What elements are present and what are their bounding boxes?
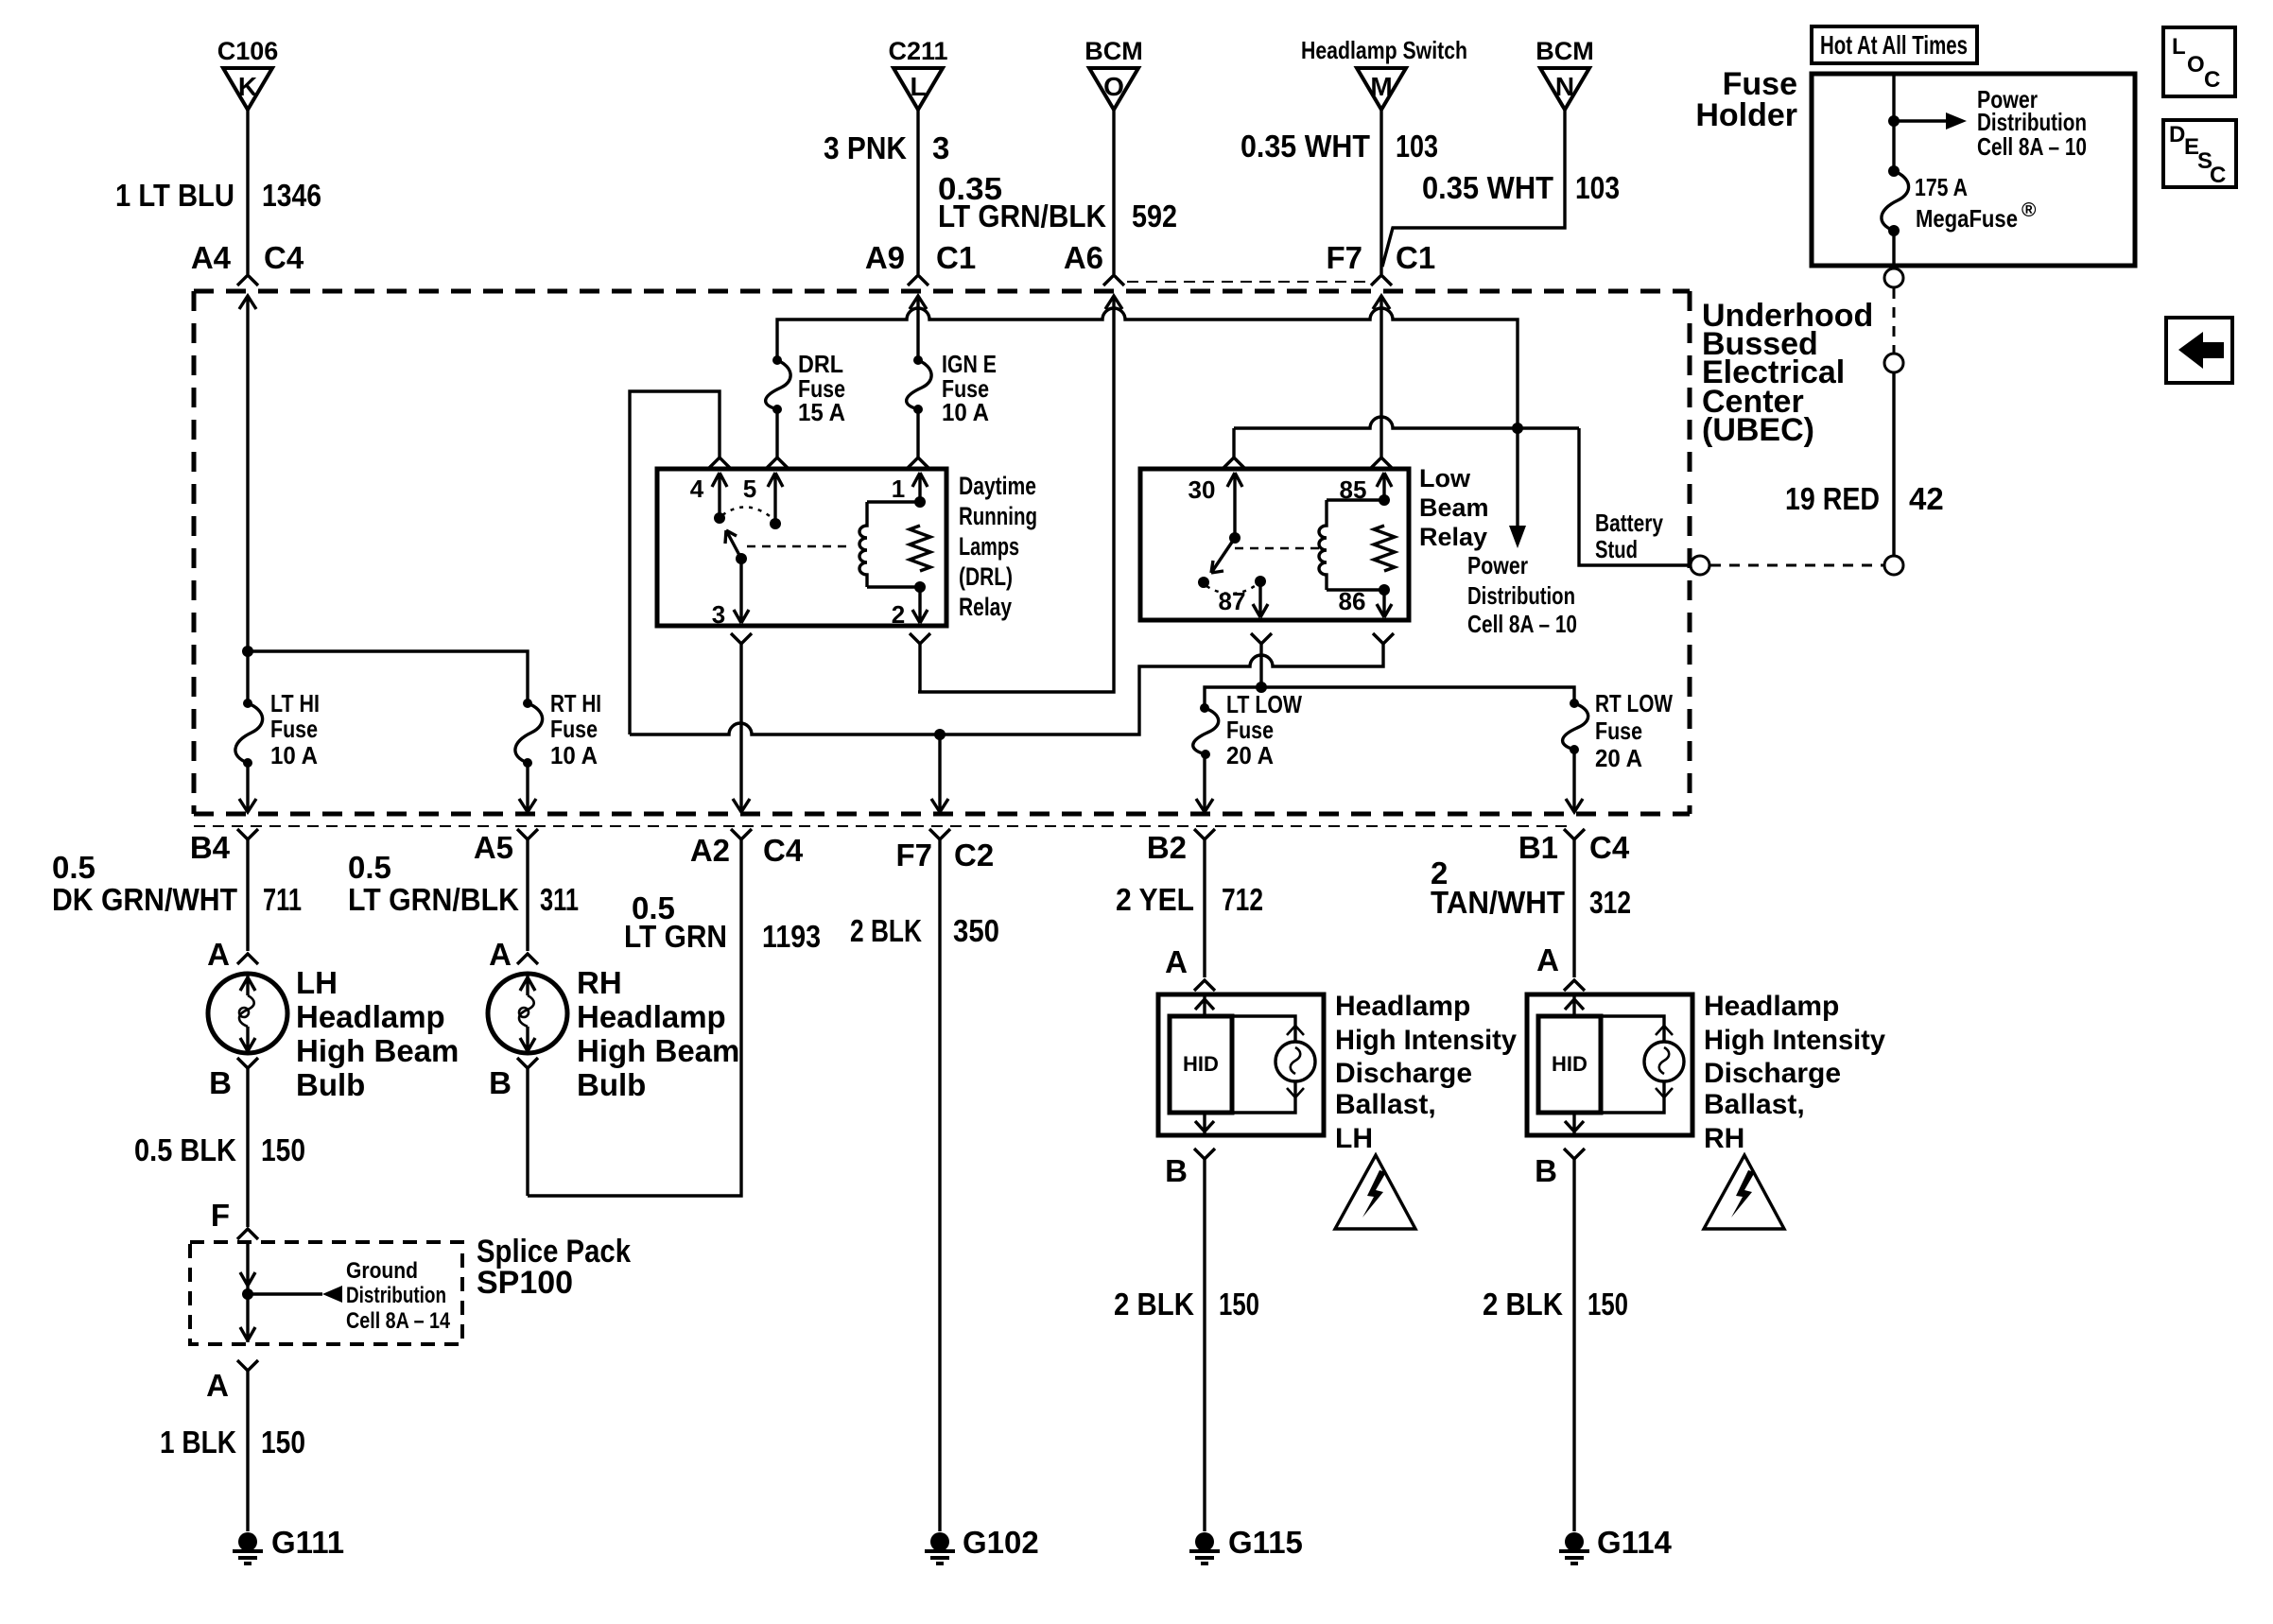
svg-text:350: 350: [953, 913, 999, 948]
DRL relay pin 1: [912, 473, 928, 502]
svg-text:DK GRN/WHT: DK GRN/WHT: [52, 882, 237, 917]
RT LOW Fuse 20 A: [1570, 699, 1579, 708]
svg-text:712: 712: [1222, 882, 1263, 917]
wire B1 to HID RH: [1572, 839, 1575, 977]
svg-text:Fuse: Fuse: [1226, 716, 1274, 744]
svg-text:1346: 1346: [262, 178, 321, 213]
svg-text:Holder: Holder: [1695, 97, 1797, 133]
svg-text:C1: C1: [1396, 240, 1435, 275]
connector chevron above DRL pin 4: [709, 458, 730, 468]
svg-text:Fuse: Fuse: [550, 715, 598, 743]
svg-text:103: 103: [1396, 129, 1438, 164]
wire inside fuse holder: [1892, 74, 1895, 171]
wire from Headlamp Switch M down to border: [1379, 110, 1382, 274]
svg-text:Daytime: Daytime: [959, 472, 1036, 500]
svg-text:5: 5: [743, 475, 756, 503]
wire DRL fuse to relay pin 5: [775, 409, 778, 458]
svg-text:2 BLK: 2 BLK: [1483, 1287, 1563, 1322]
svg-text:Headlamp: Headlamp: [1704, 991, 1839, 1022]
svg-text:Headlamp Switch: Headlamp Switch: [1301, 36, 1467, 64]
svg-text:Discharge: Discharge: [1335, 1058, 1472, 1089]
HID RH input wire and chevron: [1565, 994, 1584, 1016]
wire below A9/C1 connector to IGN E fuse: [916, 296, 919, 360]
power distribution down arrow: [1516, 428, 1518, 526]
svg-text:(DRL): (DRL): [959, 562, 1013, 591]
svg-text:150: 150: [1588, 1287, 1628, 1322]
chevron below border A5: [517, 829, 538, 839]
svg-text:RT HI: RT HI: [550, 689, 601, 717]
svg-text:Hot At All Times: Hot At All Times: [1820, 30, 1968, 60]
svg-text:F7: F7: [1326, 240, 1362, 275]
svg-text:20 A: 20 A: [1595, 744, 1642, 772]
DRL relay resistor: [910, 526, 930, 571]
battery stud wire: [1579, 428, 1690, 565]
svg-text:Distribution: Distribution: [346, 1283, 446, 1308]
Fuse Holder box: [1812, 74, 2135, 266]
HID LH igniter circuit: [1232, 1016, 1295, 1113]
wire F7/C2 down to G102: [938, 839, 941, 1531]
wire junction to RT HI fuse: [248, 651, 528, 703]
svg-text:O: O: [1103, 72, 1124, 101]
chevron above RH bulb: [517, 954, 538, 964]
svg-text:Headlamp: Headlamp: [1335, 991, 1470, 1022]
svg-text:150: 150: [1219, 1287, 1259, 1322]
connector chevron above LBR pin 30: [1223, 458, 1244, 468]
svg-text:G102: G102: [963, 1525, 1039, 1560]
Hot At All Times box: [1812, 26, 1977, 63]
svg-text:C4: C4: [264, 240, 304, 275]
svg-text:711: 711: [263, 882, 302, 917]
svg-text:312: 312: [1589, 885, 1631, 920]
svg-text:B1: B1: [1518, 830, 1558, 865]
wire B4 to LH bulb: [246, 839, 249, 951]
svg-text:Bulb: Bulb: [296, 1067, 365, 1102]
svg-text:Distribution: Distribution: [1467, 581, 1575, 610]
chevron below border B1: [1564, 829, 1585, 839]
svg-text:A: A: [1165, 944, 1188, 979]
LBR resistor: [1374, 526, 1395, 571]
svg-text:1 BLK: 1 BLK: [160, 1425, 236, 1460]
chevron below LBR pin 86: [1373, 633, 1394, 644]
svg-text:B: B: [489, 1065, 512, 1100]
wire A5 to RH bulb: [526, 839, 529, 951]
wire pin30 drop: [1232, 428, 1235, 458]
svg-text:C4: C4: [1589, 830, 1630, 865]
svg-text:HID: HID: [1552, 1052, 1588, 1076]
fuse 175A MegaFuse: [1888, 165, 1900, 177]
wire DRL relay pin 4 loop up-left-down to ground line: [630, 391, 720, 734]
dashed wire segment: [1893, 288, 1896, 353]
svg-text:A: A: [206, 1368, 229, 1403]
svg-text:LT GRN/BLK: LT GRN/BLK: [938, 199, 1106, 233]
svg-text:86: 86: [1339, 587, 1366, 615]
DRL relay pin 3: [734, 559, 749, 623]
RT HI Fuse 10 A: [523, 699, 532, 708]
connector C1 thin dashed line at top border: [1127, 281, 1374, 283]
svg-text:Fuse: Fuse: [270, 715, 318, 743]
wire RT HI fuse to border: [526, 763, 529, 811]
svg-text:BCM: BCM: [1536, 37, 1594, 65]
svg-text:2 BLK: 2 BLK: [1114, 1287, 1194, 1322]
LOC box: [2163, 27, 2235, 96]
svg-text:1 LT BLU: 1 LT BLU: [115, 178, 234, 213]
svg-text:BCM: BCM: [1084, 37, 1143, 65]
warning triangle LH: [1335, 1155, 1415, 1229]
connector BCM triangle N: [1540, 68, 1589, 110]
junction node in fuse holder: [1888, 115, 1900, 127]
chevron below border F7: [929, 829, 950, 839]
svg-text:N: N: [1555, 72, 1574, 101]
LBR pin 87: [1253, 581, 1268, 617]
svg-text:Beam: Beam: [1419, 493, 1489, 522]
svg-text:C: C: [2210, 163, 2226, 188]
DRL relay switch travel dotted arc: [722, 507, 773, 519]
svg-text:3 PNK: 3 PNK: [824, 130, 907, 165]
battery stud open circle: [1691, 556, 1709, 575]
wire out of splice pack with arrow: [240, 1294, 255, 1342]
svg-text:10 A: 10 A: [942, 398, 989, 426]
svg-text:RH: RH: [1704, 1123, 1744, 1154]
svg-text:Power: Power: [1467, 551, 1528, 579]
svg-text:High Beam: High Beam: [296, 1033, 459, 1068]
svg-text:Low: Low: [1419, 464, 1471, 492]
arrow at border for A2 wire: [733, 799, 750, 812]
svg-text:Cell 8A – 14: Cell 8A – 14: [346, 1308, 451, 1334]
svg-text:LT HI: LT HI: [270, 689, 320, 717]
svg-text:A: A: [489, 937, 512, 972]
svg-text:Ballast,: Ballast,: [1335, 1089, 1436, 1120]
RH headlamp high beam bulb: [488, 974, 567, 1053]
svg-text:High Beam: High Beam: [577, 1033, 739, 1068]
chevron below LBR pin 87: [1251, 633, 1272, 644]
svg-text:85: 85: [1340, 475, 1367, 504]
LBR switch blade: [1211, 538, 1235, 573]
LT LOW Fuse 20 A: [1200, 703, 1209, 713]
chevron below RH bulb: [517, 1058, 538, 1068]
svg-text:311: 311: [540, 882, 579, 917]
chevron below DRL pin 2: [910, 633, 930, 644]
svg-text:Battery: Battery: [1595, 509, 1663, 537]
svg-text:G114: G114: [1597, 1525, 1673, 1560]
svg-text:4: 4: [690, 475, 704, 503]
svg-text:(UBEC): (UBEC): [1702, 412, 1814, 448]
Daytime Running Lamps (DRL) Relay box: [657, 469, 946, 626]
svg-text:LT LOW: LT LOW: [1226, 690, 1302, 718]
open circle below fuse holder: [1884, 268, 1903, 287]
svg-text:2 BLK: 2 BLK: [850, 913, 922, 948]
DRL relay switch blade: [725, 530, 741, 559]
connector chevron A6: [1103, 275, 1124, 285]
svg-text:SP100: SP100: [477, 1265, 573, 1301]
svg-text:Cell 8A – 10: Cell 8A – 10: [1977, 132, 2087, 161]
svg-text:HID: HID: [1183, 1052, 1219, 1076]
svg-text:0.35 WHT: 0.35 WHT: [1241, 129, 1370, 164]
feed line y=453 to pin 30 and battery stud: [1234, 417, 1579, 428]
connector chevron A4/C4 at border: [237, 275, 258, 285]
open circle: [1884, 354, 1903, 372]
junction node at 1334,727: [1256, 682, 1267, 693]
svg-text:150: 150: [261, 1132, 305, 1167]
svg-text:LH: LH: [296, 965, 338, 1000]
wire to G111: [246, 1371, 249, 1531]
svg-text:A: A: [207, 937, 230, 972]
wire 19 RED 42: [1892, 373, 1895, 556]
svg-text:Cell 8A – 10: Cell 8A – 10: [1467, 610, 1577, 638]
connector BCM triangle O: [1089, 68, 1138, 110]
svg-text:Discharge: Discharge: [1704, 1058, 1841, 1089]
chevron below border A2: [731, 829, 752, 839]
svg-text:B: B: [209, 1065, 232, 1100]
connector chevron F7/C1: [1371, 275, 1392, 285]
wire from BCM O down to border: [1112, 110, 1115, 274]
HID LH output wire and chevron: [1195, 1113, 1214, 1135]
svg-text:10 A: 10 A: [550, 741, 598, 769]
svg-text:A5: A5: [474, 830, 513, 865]
IGN E Fuse 10 A: [913, 355, 923, 365]
LBR actuator dashed link: [1235, 547, 1320, 550]
svg-text:O: O: [2187, 52, 2205, 78]
wire pin 87 down to low-beam fuse bus: [1259, 644, 1262, 687]
junction node on K wire feeding HI fuses: [242, 646, 253, 657]
ground G115: [1195, 1532, 1214, 1551]
LBR coil: [1319, 500, 1327, 590]
svg-text:G115: G115: [1228, 1525, 1303, 1560]
svg-text:M: M: [1370, 72, 1392, 101]
svg-text:Headlamp: Headlamp: [296, 999, 445, 1034]
DRL relay pin 5: [768, 473, 783, 524]
connector thin dashed line below bottom border: [194, 825, 1567, 827]
svg-text:Stud: Stud: [1595, 535, 1638, 563]
svg-text:High Intensity: High Intensity: [1704, 1025, 1885, 1056]
svg-text:Ballast,: Ballast,: [1704, 1089, 1805, 1120]
LBR pin 30: [1227, 473, 1242, 538]
DRL relay actuator dashed link: [747, 545, 848, 548]
wire LT HI fuse to border: [246, 763, 249, 811]
svg-text:B2: B2: [1147, 830, 1187, 865]
svg-text:A4: A4: [191, 240, 232, 275]
wire from BCM N down and left to M wire: [1382, 110, 1565, 267]
chevron below HID LH: [1194, 1149, 1215, 1159]
LBR pin 86: [1377, 590, 1392, 617]
wire LH bulb B down to splice pack: [246, 1068, 249, 1227]
svg-text:L: L: [910, 72, 926, 101]
DESC box: [2163, 120, 2236, 187]
dashed link to battery stud: [1710, 564, 1883, 567]
svg-text:High Intensity: High Intensity: [1335, 1025, 1517, 1056]
svg-text:G111: G111: [271, 1525, 344, 1560]
svg-text:592: 592: [1132, 199, 1177, 233]
svg-text:3: 3: [712, 600, 725, 629]
svg-text:LH: LH: [1335, 1123, 1373, 1154]
svg-text:RH: RH: [577, 965, 622, 1000]
svg-text:Running: Running: [959, 502, 1037, 530]
LH headlamp high beam bulb: [208, 974, 287, 1053]
ground distribution branch arrow: [248, 1292, 322, 1295]
Low Beam Relay box: [1140, 469, 1409, 620]
arrow to Power Distribution Cell 8A-10: [1894, 119, 1946, 122]
arrow at border for B4 wire: [239, 799, 256, 812]
svg-text:87: 87: [1219, 587, 1246, 615]
svg-text:C211: C211: [888, 37, 947, 65]
wire from C211 L down to border: [916, 110, 919, 274]
ground G111: [238, 1532, 257, 1551]
svg-text:A: A: [1536, 942, 1559, 977]
svg-text:0.35 WHT: 0.35 WHT: [1422, 170, 1553, 205]
connector chevron above LBR pin 85: [1371, 458, 1392, 468]
svg-text:1: 1: [892, 475, 905, 503]
svg-text:B4: B4: [190, 830, 231, 865]
DRL relay pin 4: [712, 473, 727, 518]
HID ballast LH box: [1158, 994, 1324, 1135]
wire RT LOW fuse down to border: [1572, 750, 1575, 811]
arrow at border for B1 wire: [1566, 799, 1583, 812]
svg-text:L: L: [2172, 34, 2186, 60]
arrow at border for A5 wire: [519, 799, 536, 812]
chevron below border B2: [1194, 829, 1215, 839]
svg-text:Relay: Relay: [959, 593, 1012, 621]
svg-text:RT LOW: RT LOW: [1595, 689, 1673, 717]
svg-text:1193: 1193: [762, 919, 821, 954]
svg-text:C2: C2: [954, 838, 994, 872]
svg-text:20 A: 20 A: [1226, 741, 1274, 769]
UBEC dashed border right: [1688, 291, 1692, 814]
svg-text:0.5 BLK: 0.5 BLK: [134, 1132, 236, 1167]
ground G114: [1565, 1532, 1584, 1551]
chevron above HID LH: [1194, 980, 1215, 991]
chevron below LH bulb: [237, 1058, 258, 1068]
DRL relay pin 2: [912, 587, 928, 623]
wire A2 down and left to RH bulb B: [528, 839, 741, 1196]
svg-text:0.5: 0.5: [52, 850, 95, 885]
wire HID RH to G114: [1572, 1159, 1575, 1531]
wire HID LH to G115: [1203, 1159, 1206, 1531]
svg-text:Lamps: Lamps: [959, 532, 1019, 561]
LBR switch travel dotted arc: [1206, 584, 1258, 594]
svg-text:175 A: 175 A: [1915, 173, 1968, 201]
junction node ground bus to G102: [934, 729, 946, 740]
wire junction to LT HI fuse: [246, 651, 249, 703]
svg-text:2 YEL: 2 YEL: [1116, 882, 1194, 917]
svg-text:LT GRN: LT GRN: [624, 919, 727, 954]
svg-text:A6: A6: [1064, 240, 1103, 275]
wire below A4/C4 connector down to junction: [246, 296, 249, 651]
connector chevron A9/C1: [908, 275, 928, 285]
low beam fuse bus y=727: [1205, 687, 1574, 708]
svg-text:LT GRN/BLK: LT GRN/BLK: [348, 882, 519, 917]
HID LH input wire and chevron: [1195, 994, 1214, 1016]
HID RH output wire and chevron: [1565, 1113, 1584, 1135]
svg-text:B: B: [1535, 1153, 1557, 1188]
UBEC dashed border bottom: [194, 812, 1690, 817]
svg-text:10 A: 10 A: [270, 741, 318, 769]
svg-text:D: D: [2169, 122, 2185, 147]
HID ballast RH box: [1527, 994, 1692, 1135]
DRL relay coil: [859, 502, 867, 587]
svg-text:15 A: 15 A: [798, 398, 845, 426]
battery feed line y=338 with hops: [777, 308, 1518, 428]
arrow at border for F7 wire: [931, 799, 948, 812]
connector C211 triangle L: [894, 68, 943, 110]
open circle at battery stud right: [1884, 556, 1903, 575]
junction node at 1605,453: [1512, 423, 1523, 434]
svg-text:TAN/WHT: TAN/WHT: [1431, 885, 1565, 920]
svg-text:Bulb: Bulb: [577, 1067, 646, 1102]
ground G102: [930, 1532, 949, 1551]
chevron below HID RH: [1564, 1149, 1585, 1159]
svg-text:K: K: [238, 72, 257, 101]
wire below A6 connector down to DRL relay pin 2 link: [918, 296, 1114, 692]
connector C106 triangle K: [223, 68, 272, 110]
wire LT LOW fuse down to border: [1203, 754, 1206, 811]
connector chevron above DRL pin 5: [767, 458, 788, 468]
wire IGN E fuse to relay pin 1: [916, 409, 919, 458]
LT HI Fuse 10 A: [243, 699, 252, 708]
back arrow box: [2166, 318, 2232, 383]
chevron below DRL pin 3: [731, 633, 752, 644]
LBR pin 85: [1377, 473, 1392, 500]
svg-text:150: 150: [261, 1425, 305, 1460]
svg-text:19 RED: 19 RED: [1785, 481, 1880, 516]
wire DRL pin 3 down to A2 connector: [739, 644, 742, 811]
svg-text:42: 42: [1909, 481, 1944, 516]
chevron above splice pack: [237, 1229, 258, 1239]
warning triangle RH: [1704, 1155, 1784, 1229]
svg-text:B: B: [1165, 1153, 1188, 1188]
DRL Fuse 15 A: [772, 355, 782, 365]
svg-text:C4: C4: [763, 833, 804, 868]
wire RH bulb B down to 1193 wire: [526, 1068, 529, 1196]
chevron above LH bulb: [237, 954, 258, 964]
wire into splice pack with arrow: [240, 1242, 255, 1294]
UBEC dashed border left: [192, 291, 197, 814]
wire F7/C2 ground drop from junction to border: [938, 734, 941, 811]
wire from C106 K down to UBEC border: [246, 110, 249, 274]
UBEC dashed border top: [194, 289, 1690, 294]
svg-text:C106: C106: [217, 37, 279, 65]
chevron above HID RH: [1564, 980, 1585, 991]
svg-text:2: 2: [892, 600, 905, 629]
ground bus from pin 86: down, left along y705, down x1205, left y777: [630, 644, 1383, 734]
svg-text:A9: A9: [865, 240, 905, 275]
svg-text:C1: C1: [936, 240, 976, 275]
svg-text:3: 3: [932, 130, 949, 165]
svg-text:30: 30: [1189, 475, 1216, 504]
svg-text:C: C: [2204, 67, 2220, 93]
svg-text:F: F: [211, 1198, 230, 1233]
svg-text:®: ®: [2021, 199, 2037, 221]
svg-text:A2: A2: [690, 833, 730, 868]
svg-text:MegaFuse: MegaFuse: [1916, 204, 2018, 233]
chevron below border B4: [237, 829, 258, 839]
connector Headlamp Switch triangle M: [1357, 68, 1406, 110]
wire DRL pin 2 down to BCM link: [918, 644, 921, 692]
svg-text:103: 103: [1575, 170, 1620, 205]
svg-text:Headlamp: Headlamp: [577, 999, 726, 1034]
HID RH igniter circuit: [1601, 1016, 1664, 1113]
wire B2 to HID LH: [1203, 839, 1206, 977]
svg-text:Fuse: Fuse: [1595, 717, 1642, 745]
svg-text:0.5: 0.5: [348, 850, 391, 885]
wire below F7/C1 connector to low beam relay pin 85: [1379, 296, 1382, 458]
svg-text:Ground: Ground: [346, 1258, 418, 1284]
svg-text:F7: F7: [895, 838, 932, 872]
chevron below splice pack: [237, 1360, 258, 1371]
connector chevron above DRL pin 1: [908, 458, 928, 468]
Splice Pack SP100 dashed box: [190, 1242, 462, 1344]
svg-text:Relay: Relay: [1419, 523, 1487, 551]
arrow at border for B2 wire: [1196, 799, 1213, 812]
